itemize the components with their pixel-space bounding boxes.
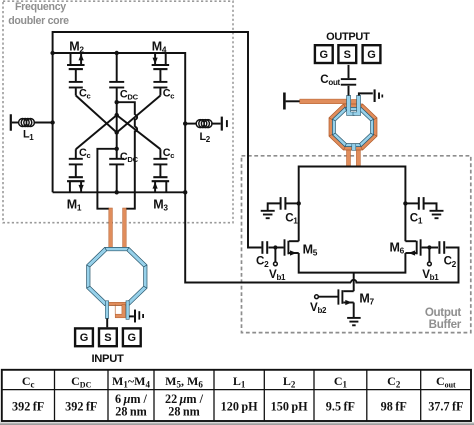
svg-text:S: S xyxy=(104,332,111,344)
svg-text:150 pH: 150 pH xyxy=(271,400,308,414)
svg-text:G: G xyxy=(320,49,329,61)
svg-text:INPUT: INPUT xyxy=(91,353,124,365)
svg-text:28 nm: 28 nm xyxy=(168,404,200,418)
svg-text:Frequency: Frequency xyxy=(15,1,66,13)
svg-text:Buffer: Buffer xyxy=(429,318,462,331)
svg-text:120 pH: 120 pH xyxy=(221,400,258,414)
svg-text:G: G xyxy=(367,49,376,61)
svg-text:392 fF: 392 fF xyxy=(12,400,44,414)
svg-text:9.5 fF: 9.5 fF xyxy=(326,400,355,414)
svg-text:OUTPUT: OUTPUT xyxy=(326,31,370,43)
svg-text:392 fF: 392 fF xyxy=(65,400,97,414)
svg-text:G: G xyxy=(80,332,89,344)
svg-text:M1~M4: M1~M4 xyxy=(112,374,150,390)
svg-text:37.7 fF: 37.7 fF xyxy=(428,400,463,414)
svg-text:G: G xyxy=(128,332,137,344)
svg-text:doubler core: doubler core xyxy=(8,15,69,27)
svg-text:98 fF: 98 fF xyxy=(381,400,407,414)
svg-text:S: S xyxy=(344,49,351,61)
svg-text:M5, M6: M5, M6 xyxy=(165,374,203,390)
svg-text:28 nm: 28 nm xyxy=(115,404,147,418)
